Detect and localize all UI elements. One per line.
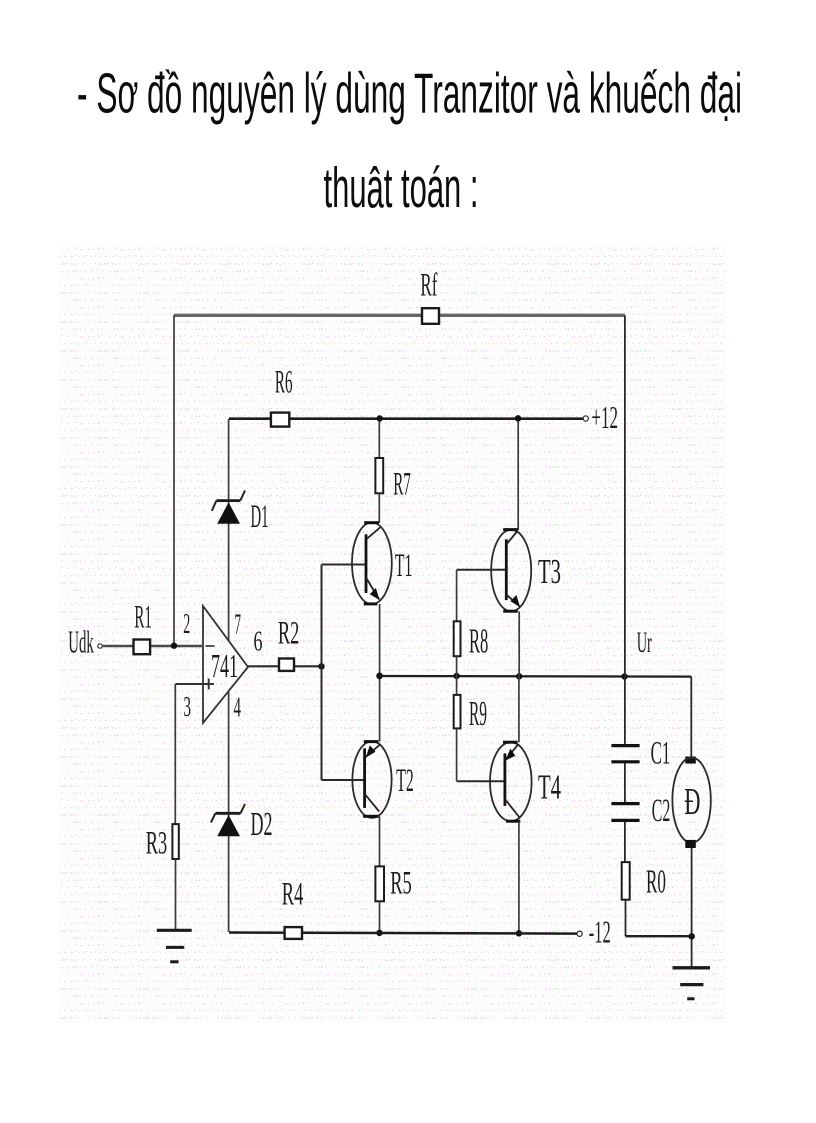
svg-text:T3: T3 [538, 552, 561, 591]
node R7 top junction [377, 415, 383, 421]
resistor R8 [454, 621, 461, 656]
wire pin3 [175, 683, 203, 685]
svg-text:R7: R7 [393, 467, 411, 503]
svg-text:R1: R1 [134, 600, 152, 636]
terminal -12 [577, 931, 582, 936]
svg-text:3: 3 [184, 692, 192, 723]
wire bottom to motor junction [626, 935, 692, 937]
resistor R6 [271, 413, 289, 427]
wire T3 base from R8 [457, 569, 507, 571]
svg-text:Ur: Ur [637, 626, 652, 659]
node T3 collector junction [515, 415, 521, 421]
wire C2 to R0 [624, 822, 626, 862]
wire pin3 down to R3 [174, 684, 176, 824]
zener diode D2 [211, 804, 273, 843]
wire Rf top feedback horizontal [174, 314, 625, 317]
svg-text:R3: R3 [146, 826, 168, 862]
transistor T4 [490, 742, 561, 821]
ground right [673, 968, 711, 999]
svg-text:R8: R8 [469, 622, 488, 661]
wire T1 emitter down [379, 604, 381, 676]
resistor R7 [375, 458, 383, 493]
svg-text:R4: R4 [282, 877, 304, 913]
node emitters junction [376, 673, 383, 680]
wire R9 down [456, 728, 458, 781]
capacitor C1 [611, 736, 670, 772]
svg-text:4: 4 [234, 693, 242, 724]
wire T4 collector down [518, 821, 520, 933]
wire R0 down [625, 900, 627, 937]
node motor ground junction [689, 933, 695, 939]
wire op-amp output [248, 665, 322, 667]
svg-text:C2: C2 [652, 793, 671, 829]
resistor R9 [454, 695, 461, 729]
resistor R4 [285, 927, 302, 939]
wire T2 emitter up [379, 676, 381, 742]
op-amp U1 741 [183, 606, 262, 724]
wire +12 rail [229, 417, 583, 420]
resistor R1 [134, 640, 151, 655]
wire pin7 vertical with D1 [228, 419, 230, 640]
motor D [672, 757, 710, 849]
node T3 T4 emitter junction [516, 673, 522, 679]
wire T3 collector up [517, 419, 519, 530]
resistor R3 [172, 824, 178, 859]
node Ur rail junction [621, 673, 627, 679]
transistor T1 [352, 523, 412, 605]
wire middle emitter rail [380, 675, 692, 678]
svg-text:C1: C1 [651, 736, 671, 772]
wire pin4 vertical with D2 [228, 692, 230, 932]
wire T2 base [322, 779, 365, 781]
svg-text:D2: D2 [251, 806, 273, 843]
wire T4 base from R9 [457, 780, 505, 782]
wire C1 to C2 [624, 763, 626, 803]
svg-text:Rf: Rf [420, 268, 437, 304]
svg-text:- Sơ đồ nguyên lý dùng Tranzit: - Sơ đồ nguyên lý dùng Tranzitor và khuế… [77, 62, 742, 126]
zener diode D1 [212, 491, 269, 535]
node pin2 junction [171, 643, 177, 649]
svg-text:-12: -12 [589, 913, 611, 949]
svg-text:7: 7 [235, 610, 242, 641]
svg-text:Đ: Đ [684, 781, 700, 823]
wire -12 rail [229, 933, 577, 934]
wire T3 emitter down [518, 611, 520, 676]
svg-text:R0: R0 [646, 864, 666, 901]
wire R7 top [378, 419, 380, 458]
resistor R2 [279, 659, 294, 671]
svg-text:T1: T1 [395, 548, 413, 584]
wire T4 emitter up [518, 676, 520, 742]
svg-text:R6: R6 [275, 365, 293, 401]
wire R3 to ground [175, 859, 177, 930]
resistor R0 [622, 862, 630, 900]
capacitor C2 [611, 793, 670, 829]
node R5 rail junction [376, 930, 382, 936]
svg-text:T2: T2 [396, 763, 414, 799]
wire R5 to rail [379, 901, 381, 933]
svg-text:6: 6 [254, 627, 263, 658]
resistor R5 [375, 866, 384, 901]
wire R8 top [456, 570, 458, 622]
wire T1 base [322, 564, 367, 566]
svg-text:741: 741 [211, 648, 238, 685]
svg-text:T4: T4 [538, 768, 561, 807]
wire R8 to R9 [456, 656, 458, 695]
node R8 R9 junction [453, 673, 459, 679]
wire R7 to T1 collector [378, 493, 380, 523]
wire T2 collector down through R5 [379, 816, 381, 866]
svg-text:2: 2 [183, 609, 190, 640]
wire bases vertical [321, 565, 323, 781]
transistor T3 [491, 530, 561, 612]
svg-text:+12: +12 [591, 399, 618, 435]
wire input pin2 [102, 645, 203, 647]
svg-text:R2: R2 [278, 616, 300, 652]
terminal +12 [583, 416, 588, 421]
resistor Rf [422, 308, 439, 324]
schematic scan background [59, 244, 726, 1023]
wire to motor [690, 677, 692, 757]
node output junction [318, 663, 324, 669]
svg-text:R5: R5 [390, 866, 412, 902]
svg-text:Udk: Udk [68, 624, 94, 660]
svg-text:thuât toán :: thuât toán : [324, 156, 479, 220]
svg-text:D1: D1 [251, 499, 269, 535]
ground left [157, 930, 192, 962]
node T4 rail junction [516, 930, 522, 936]
wire motor to ground [691, 848, 693, 968]
wire left feedback vertical [173, 315, 175, 645]
transistor T2 [352, 741, 413, 817]
wire right rail vertical [624, 315, 626, 745]
svg-text:R9: R9 [469, 694, 487, 733]
